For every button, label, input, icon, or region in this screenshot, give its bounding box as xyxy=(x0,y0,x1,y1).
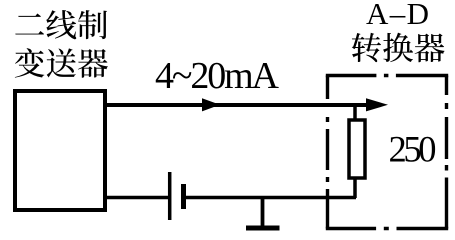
arrowhead at resistor (wire end) xyxy=(366,98,388,111)
resistor R1 body 250 ohm xyxy=(349,120,365,178)
label 转换器 (converter) xyxy=(352,33,445,63)
A-D converter boundary bottom edge (dash-dot) xyxy=(326,227,448,230)
svg-text:250: 250 xyxy=(389,129,437,170)
label 二线制 (two-wire) line 1 xyxy=(15,10,107,39)
A-D converter boundary right edge (dash-dot) xyxy=(445,76,448,229)
ground bar xyxy=(246,226,280,231)
label 变送器 (transmitter) line 2 xyxy=(15,48,108,78)
svg-text:A–D: A–D xyxy=(366,0,429,31)
arrowhead mid (current direction) xyxy=(202,98,220,111)
A-D converter boundary left edge (dash-dot) xyxy=(326,76,329,229)
battery B1 long plate (+) xyxy=(168,172,172,220)
wire: transmitter output to A-D converter (top), node current loop xyxy=(105,103,370,107)
resistor top lead xyxy=(353,105,357,120)
wire: transmitter to battery (bottom left) xyxy=(105,196,168,200)
A-D converter boundary top edge (dash-dot) xyxy=(326,74,448,77)
battery B1 short plate (-) xyxy=(181,184,186,209)
wire: battery to resistor (bottom) xyxy=(186,196,356,200)
svg-text:4~20mA: 4~20mA xyxy=(155,55,280,97)
two-wire transmitter box U1 xyxy=(15,91,105,210)
resistor bottom lead xyxy=(353,178,357,198)
ground stem xyxy=(261,198,265,228)
